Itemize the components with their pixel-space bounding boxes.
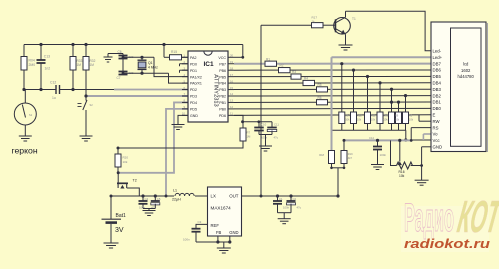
svg-text:S2: S2 [90,103,94,107]
svg-text:PA1/X2: PA1/X2 [190,75,202,79]
svg-text:PB1: PB1 [219,101,226,105]
svg-text:10k: 10k [383,118,388,122]
svg-text:Led-: Led- [433,49,442,54]
svg-text:C10: C10 [261,122,267,126]
svg-text:FB: FB [216,230,222,235]
svg-text:GND: GND [190,114,198,118]
svg-text:R8: R8 [409,114,413,118]
svg-text:REF: REF [211,223,220,228]
svg-text:PD1: PD1 [190,69,197,73]
svg-text:КОТ: КОТ [454,191,499,242]
svg-text:Vcc: Vcc [433,138,441,143]
svg-text:R20: R20 [123,156,129,160]
svg-text:C11: C11 [274,122,279,126]
svg-text:RW: RW [433,119,441,124]
svg-text:hd44780: hd44780 [458,74,475,79]
svg-text:L1: L1 [173,189,177,193]
svg-text:C13: C13 [44,55,50,59]
svg-text:PB4: PB4 [219,82,226,86]
svg-text:R19: R19 [348,152,353,156]
svg-text:radiokot.ru: radiokot.ru [404,236,490,251]
svg-text:R4: R4 [304,77,308,81]
svg-text:S1: S1 [29,113,33,117]
svg-text:10k: 10k [399,174,405,178]
svg-text:C7: C7 [117,76,121,80]
svg-text:C4: C4 [145,197,149,201]
svg-text:C14: C14 [369,136,374,140]
svg-text:PD0: PD0 [190,62,197,66]
svg-text:R2: R2 [280,64,284,68]
svg-text:MAX1674: MAX1674 [211,206,232,211]
svg-text:C1: C1 [279,197,283,201]
svg-text:R5: R5 [318,83,322,87]
svg-text:PD6: PD6 [219,114,226,118]
svg-text:C12: C12 [50,81,56,85]
svg-text:1M: 1M [90,63,95,67]
svg-text:1M: 1M [77,63,82,67]
svg-text:R04: R04 [29,59,35,63]
svg-text:PD2: PD2 [190,88,197,92]
svg-text:PB7: PB7 [219,62,226,66]
svg-text:LX: LX [211,194,216,199]
svg-text:47u: 47u [297,205,302,209]
svg-text:4 MHz: 4 MHz [148,65,158,69]
svg-text:Led+: Led+ [433,55,443,60]
svg-text:PD5: PD5 [190,108,197,112]
svg-text:GND: GND [229,230,238,235]
svg-text:DB1: DB1 [433,100,442,105]
svg-text:GND: GND [433,145,443,150]
svg-text:PB2: PB2 [219,95,226,99]
svg-text:2M0: 2M0 [29,63,36,67]
svg-text:10k: 10k [357,118,362,122]
svg-text:Радио: Радио [404,196,454,240]
svg-text:10k: 10k [123,160,128,164]
svg-text:1u: 1u [52,96,56,100]
svg-text:R12: R12 [357,114,362,118]
svg-text:lcd: lcd [463,62,469,67]
svg-text:PB5: PB5 [219,75,226,79]
svg-text:R18: R18 [319,153,324,157]
svg-text:1k: 1k [312,19,316,23]
svg-text:E: E [433,113,436,118]
svg-text:4k7: 4k7 [348,156,353,160]
svg-text:100n: 100n [183,238,190,242]
svg-text:RS: RS [433,125,439,130]
svg-text:C5: C5 [157,197,161,201]
svg-text:47u: 47u [274,136,279,140]
svg-text:PA2: PA2 [190,56,197,60]
svg-text:DB4: DB4 [433,81,442,86]
svg-text:PB3: PB3 [219,88,226,92]
svg-text:геркон: геркон [12,146,38,156]
svg-text:PB0: PB0 [219,108,226,112]
svg-text:Bat1: Bat1 [116,213,127,219]
svg-text:C2: C2 [293,197,297,201]
svg-text:IC1: IC1 [204,61,215,68]
svg-text:R3: R3 [292,70,296,74]
svg-text:DB7: DB7 [433,61,442,66]
svg-text:22µH: 22µH [172,198,181,202]
svg-text:PB6: PB6 [219,69,226,73]
svg-text:Vo: Vo [433,132,439,137]
svg-text:DB0: DB0 [433,106,442,111]
svg-text:10k: 10k [409,118,414,122]
svg-text:T2: T2 [133,179,137,183]
svg-text:R15: R15 [171,50,177,54]
svg-text:DB3: DB3 [433,87,442,92]
svg-text:R16: R16 [399,170,405,174]
svg-text:ATTINY2313: ATTINY2313 [213,74,219,106]
svg-text:VCC: VCC [218,56,226,60]
svg-text:10k: 10k [345,118,350,122]
svg-text:PD3: PD3 [190,95,197,99]
svg-text:100n: 100n [380,153,387,157]
svg-text:DB5: DB5 [433,74,442,79]
svg-text:100n: 100n [283,205,290,209]
svg-text:R14: R14 [345,114,350,118]
svg-text:T1: T1 [352,17,356,21]
svg-text:R1: R1 [266,57,270,61]
svg-text:1602: 1602 [461,68,471,73]
svg-text:R6: R6 [318,96,322,100]
svg-text:DB2: DB2 [433,93,442,98]
svg-text:DB6: DB6 [433,68,442,73]
svg-text:100n: 100n [261,136,268,140]
svg-text:3V: 3V [115,227,124,234]
svg-text:PA0/X1: PA0/X1 [190,82,202,86]
svg-text:C6: C6 [118,50,122,54]
svg-text:10k: 10k [395,118,400,122]
svg-text:R9: R9 [395,114,399,118]
svg-text:1M: 1M [247,134,252,138]
svg-text:OUT: OUT [229,194,239,199]
svg-text:R11: R11 [371,114,376,118]
svg-text:C3: C3 [198,220,202,224]
svg-text:R10: R10 [383,114,388,118]
svg-text:10k: 10k [371,118,376,122]
svg-text:PD4: PD4 [190,101,197,105]
svg-text:1n2: 1n2 [45,67,51,71]
